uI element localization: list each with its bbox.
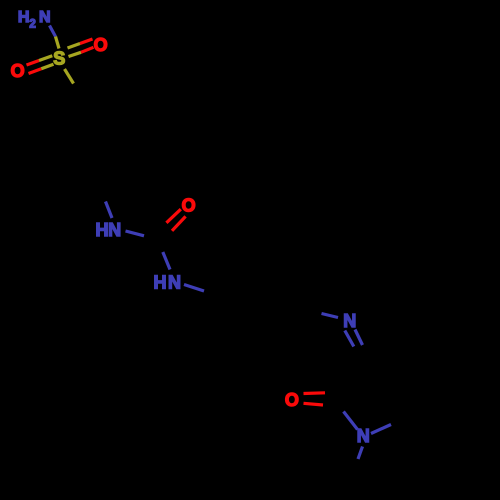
svg-text:2: 2 (29, 19, 35, 31)
bond S=O left line2 (O half, red) (29, 69, 42, 74)
atom label HN (urea N2) (154, 273, 182, 293)
bond N-S (S half, yellow) (56, 37, 60, 49)
bond N1-C(urea) (N half, blue) (126, 231, 145, 236)
bond S-C(aryl) (S half, yellow) (65, 69, 74, 84)
svg-text:N: N (343, 311, 356, 331)
bond N3=C3 line2 (N half, blue) (355, 330, 363, 346)
svg-text:O: O (285, 390, 299, 410)
svg-text:O: O (182, 196, 196, 216)
bond C2=O line1 (O half, red) (304, 391, 326, 395)
svg-text:H: H (96, 220, 109, 240)
bond C2-N1(ring) (N half, blue) (344, 412, 358, 430)
bond S=O left line1 (S half, yellow) (39, 56, 52, 61)
bond C(urea)=O line2 (O half, red) (172, 216, 186, 230)
bond S=O right line2 (S half, yellow) (69, 52, 82, 56)
bond N-C7a (N half, blue) (371, 425, 391, 434)
bond N-S (N half, blue) (50, 26, 56, 37)
svg-text:N: N (39, 9, 51, 26)
svg-text:S: S (53, 49, 65, 69)
bond C2=O line2 (O half, red) (304, 403, 324, 405)
svg-text:H: H (18, 9, 30, 26)
bond N2-C(central aryl) (N half, blue) (184, 285, 204, 292)
bond C(aryl)-N1 (N half, blue) (106, 202, 113, 219)
bond S=O left line1 (O half, red) (27, 61, 40, 66)
bond N3=C3 line1 (N half, blue) (345, 331, 354, 347)
bond C(urea)=O line1 (O half, red) (166, 209, 180, 223)
bond S=O left line2 (S half, yellow) (41, 64, 53, 69)
atom label H2N (sulfonamide NH2) (18, 9, 51, 31)
svg-text:O: O (94, 35, 108, 55)
bond S=O right line1 (O half, red) (80, 39, 93, 44)
svg-text:H: H (154, 273, 167, 293)
bond S=O right line2 (O half, red) (81, 47, 94, 52)
bond S=O right line1 (S half, yellow) (68, 44, 81, 49)
svg-text:N: N (357, 426, 370, 446)
bond C(central aryl)-N3 (N half, blue) (322, 314, 339, 318)
bond C(urea)-N2 (N half, blue) (163, 252, 170, 270)
svg-text:N: N (108, 220, 121, 240)
bond N-CH3 (N half, blue) (358, 447, 363, 460)
atom label HN (urea N1) (96, 220, 122, 240)
svg-text:O: O (11, 61, 25, 81)
svg-text:N: N (168, 273, 181, 293)
